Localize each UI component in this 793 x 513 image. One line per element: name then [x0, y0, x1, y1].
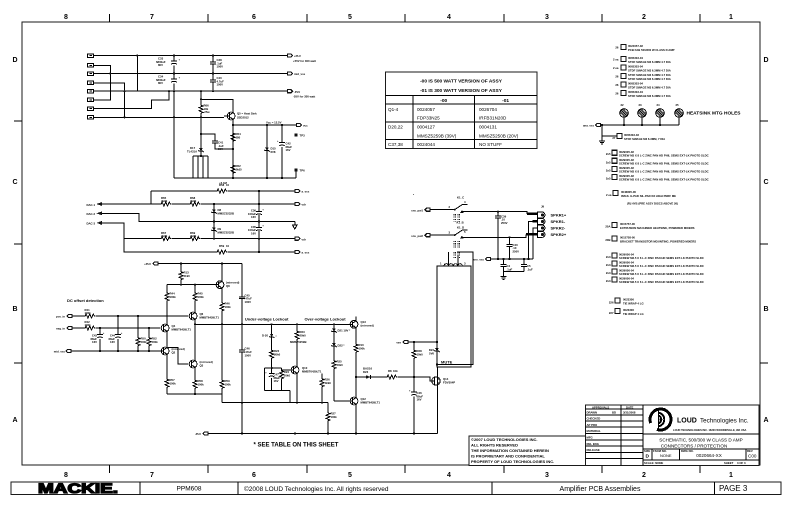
capacitor C39: [497, 211, 499, 213]
approvals table: [621, 405, 643, 466]
wire pin2-pin6 tie: [94, 65, 111, 100]
svg-text:MMSZ5259B: MMSZ5259B: [290, 340, 306, 344]
svg-text:0020664-XX: 0020664-XX: [696, 453, 722, 458]
svg-text:NONE: NONE: [660, 453, 672, 458]
svg-text:SPKR1-: SPKR1-: [551, 219, 566, 224]
svg-text:PROPERTY OF LOUD TECHNOLOGIES: PROPERTY OF LOUD TECHNOLOGIES INC.: [471, 459, 554, 464]
wire cap commons: [504, 272, 525, 277]
transformer winding risers: [449, 252, 458, 266]
resistor R26: [321, 374, 323, 378]
resistor R44: [166, 285, 168, 292]
resistor R45: [194, 285, 196, 292]
svg-text:24: 24: [657, 103, 661, 107]
svg-text:20k0: 20k0: [337, 363, 344, 367]
terminal vss bottom: [295, 250, 300, 253]
svg-text:©2008 LOUD Technologies Inc.: ©2008 LOUD Technologies Inc. All rights …: [244, 485, 389, 493]
svg-text:A: A: [12, 417, 17, 424]
svg-text:16V: 16V: [274, 379, 279, 383]
svg-text:Q8: Q8: [226, 284, 230, 288]
svg-text:0026704: 0026704: [479, 107, 497, 112]
capacitor C43: [99, 328, 101, 335]
title block: [585, 405, 759, 466]
svg-text:8: 8: [64, 14, 68, 21]
svg-text:MMBT6429LT1: MMBT6429LT1: [302, 369, 322, 373]
svg-text:4k99: 4k99: [190, 199, 197, 203]
svg-text:2x5: 2x5: [606, 160, 611, 164]
wire row2: [102, 203, 295, 205]
column ticks bottom: [110, 465, 701, 473]
resistor R62: [231, 164, 235, 174]
svg-text:Amplifier PCB Assemblies: Amplifier PCB Assemblies: [560, 486, 641, 493]
capacitor C40b: [508, 236, 510, 238]
svg-text:DRAWN: DRAWN: [587, 411, 598, 415]
svg-text:DAC-3: DAC-3: [86, 222, 95, 226]
transistor Q8: [216, 281, 224, 289]
TL431 lead bundle: [193, 156, 208, 178]
svg-text:26: 26: [615, 75, 619, 79]
svg-text:226: 226: [609, 301, 614, 305]
svg-text:6: 6: [252, 14, 256, 21]
capacitor C46b: [241, 324, 243, 350]
node pin4/-PLV junction: [123, 90, 125, 92]
svg-text:4: 4: [447, 472, 451, 479]
svg-text:STDF SWAGE M3 6.3MM, 7 DIA: STDF SWAGE M3 6.3MM, 7 DIA: [624, 137, 665, 141]
svg-text:2 ea: 2 ea: [613, 58, 619, 62]
svg-text:SIZE: SIZE: [644, 449, 650, 453]
svg-text:DWG NO.: DWG NO.: [681, 449, 694, 453]
svg-text:100V: 100V: [217, 65, 224, 69]
svg-text:4k99: 4k99: [161, 234, 168, 238]
resistor R27: [327, 403, 329, 412]
terminal vcc: [297, 123, 302, 126]
wire pin1-pin5 tie: [136, 56, 138, 92]
wire gate jog: [414, 377, 435, 381]
svg-text:TP6: TP6: [300, 169, 306, 173]
resistor R22: [270, 349, 274, 359]
svg-text:100k: 100k: [225, 305, 232, 309]
transformer T1 primary bumps: [444, 264, 462, 266]
connector J1 pin 1: [88, 54, 94, 58]
connector SPKR2+: [538, 231, 546, 237]
diode D21: [333, 324, 335, 328]
svg-text:TIE WRAP 4 LG: TIE WRAP 4 LG: [623, 301, 644, 305]
svg-text:SCREW M3 X 8 L-C ZINC PAN HD P: SCREW M3 X 8 L-C ZINC PAN HD PHIL SEMS E…: [619, 162, 709, 166]
svg-text:2x3: 2x3: [606, 279, 611, 283]
svg-text:10k: 10k: [393, 369, 398, 373]
wire collector tap: [201, 99, 233, 112]
resistor R50: [137, 316, 139, 337]
svg-text:7: 7: [150, 14, 154, 21]
svg-text:20A: 20A: [605, 225, 610, 229]
svg-text:250V: 250V: [501, 221, 508, 225]
wire mute riser: [437, 252, 473, 365]
svg-text:16V: 16V: [417, 398, 422, 402]
svg-text:vee: vee: [396, 341, 401, 345]
wire Q8 emitter to R46: [221, 288, 223, 302]
svg-text:DAC-1: DAC-1: [86, 203, 95, 207]
svg-text:100k: 100k: [85, 323, 92, 327]
wire down jog: [221, 394, 223, 403]
resistor R25: [332, 360, 336, 370]
transistor Q14: [432, 377, 440, 385]
capacitor C40: [212, 74, 214, 81]
svg-text:a_vss: a_vss: [302, 251, 310, 255]
svg-text:-55V for 300 watt: -55V for 300 watt: [293, 95, 315, 99]
svg-text:26: 26: [615, 83, 619, 87]
wire to relay K2: [430, 234, 454, 236]
connector SPKR2-: [538, 225, 546, 231]
terminal vdr2: [295, 237, 300, 240]
wire bottom bus: [174, 177, 296, 179]
svg-text:2: 2: [642, 472, 646, 479]
svg-text:20k0: 20k0: [300, 333, 307, 337]
transistor Q12: [350, 397, 358, 405]
svg-text:100k: 100k: [170, 295, 177, 299]
wire Q4 emitter to Q2: [166, 331, 168, 347]
wire row4 jog: [102, 223, 295, 239]
svg-text:DC offset detection: DC offset detection: [67, 298, 104, 303]
svg-text:C37,38: C37,38: [388, 142, 403, 147]
svg-text:1: 1: [729, 14, 733, 21]
svg-text:HEATSINK MTG HOLES: HEATSINK MTG HOLES: [687, 110, 742, 116]
column labels top: [64, 14, 733, 21]
diode D9: [213, 222, 215, 228]
svg-text:STDF SWAGE M3 6.3MM 4.7 DIA: STDF SWAGE M3 6.3MM 4.7 DIA: [628, 60, 671, 64]
svg-text:-PLV: -PLV: [195, 432, 201, 436]
wire vee row: [408, 341, 437, 343]
wire +PLV bus: [94, 55, 288, 57]
svg-text:(mirrored): (mirrored): [361, 324, 374, 328]
wire lockout bus: [195, 323, 353, 325]
svg-text:.1uF: .1uF: [527, 267, 533, 271]
svg-text:200k: 200k: [152, 340, 159, 344]
resistor R57: [166, 354, 168, 378]
svg-text:16V: 16V: [110, 340, 115, 344]
node pin7 join: [168, 90, 170, 92]
svg-text:3/31/2008: 3/31/2008: [623, 411, 636, 415]
node pin1 tie junction: [136, 54, 138, 56]
svg-text:SCREW M3.5 X 6 L-C ZINC PAN HD: SCREW M3.5 X 6 L-C ZINC PAN HD SEMS EXT-…: [619, 256, 704, 260]
mounting hole 23: [638, 109, 647, 118]
svg-text:DAC-2: DAC-2: [86, 212, 95, 216]
connector J1 pin 5: [88, 90, 94, 94]
svg-text:Under-voltage Lockout: Under-voltage Lockout: [245, 317, 289, 322]
resistor R13: [180, 264, 182, 271]
wire TL431 column: [200, 117, 202, 146]
resistor R64: [231, 132, 235, 142]
relay K2 contact: [454, 234, 456, 236]
svg-text:100k: 100k: [225, 382, 232, 386]
svg-text:6V8: 6V8: [271, 150, 276, 154]
svg-text:2x3: 2x3: [606, 255, 611, 259]
svg-text:SCREW M3 X 8 L-C ZINC PAN HD P: SCREW M3 X 8 L-C ZINC PAN HD PHIL SEMS E…: [619, 170, 709, 174]
svg-text:MMSZ5250B (20V): MMSZ5250B (20V): [479, 133, 519, 138]
svg-text:100k: 100k: [198, 295, 205, 299]
svg-text:ana_vss: ana_vss: [583, 124, 594, 128]
wire to relay K1: [430, 209, 454, 211]
svg-text:IRFB31N20D: IRFB31N20D: [479, 116, 507, 121]
wire pin4-pin8 tie: [94, 83, 125, 118]
svg-text:MMSZ5232B: MMSZ5232B: [218, 230, 234, 234]
wire Q3 collector: [194, 324, 196, 360]
svg-text:TL431A: TL431A: [187, 150, 197, 154]
svg-text:BRACKET TRANSISTOR MOUNTING, P: BRACKET TRANSISTOR MOUNTING, POWERED MIX…: [620, 239, 696, 243]
svg-text:THE INFORMATION CONTAINED HERE: THE INFORMATION CONTAINED HEREIN: [471, 448, 549, 453]
capacitor C36: [258, 204, 260, 211]
wire ano_vss row: [491, 258, 534, 260]
svg-text:5V6: 5V6: [429, 351, 434, 355]
svg-text:-01 IS 300 WATT VERSION OF ASS: -01 IS 300 WATT VERSION OF ASSY: [420, 88, 503, 94]
resistor R8: [386, 375, 397, 379]
terminal vss top: [295, 189, 300, 192]
svg-text:Technologies Inc.: Technologies Inc.: [700, 417, 749, 424]
wire lower bus jogs: [222, 402, 328, 404]
svg-text:0004127: 0004127: [417, 125, 435, 130]
svg-text:0004131: 0004131: [479, 125, 497, 130]
svg-text:Vcc = 12.5V: Vcc = 12.5V: [266, 121, 282, 125]
svg-text:20B: 20B: [605, 238, 610, 242]
svg-text:mid_vss: mid_vss: [54, 350, 66, 354]
wire mid rail down: [173, 91, 175, 178]
svg-text:RELEASE: RELEASE: [587, 448, 600, 452]
svg-text:100V: 100V: [245, 300, 252, 304]
svg-text:D21 19V *: D21 19V *: [338, 329, 352, 333]
resistor R46: [220, 302, 224, 312]
svg-text:MMBT6429LT1: MMBT6429LT1: [172, 327, 192, 331]
svg-text:* SEE TABLE ON THIS SHEET: * SEE TABLE ON THIS SHEET: [254, 443, 339, 449]
svg-text:SCREW M3 X 8 L-C ZINC PAN HD P: SCREW M3 X 8 L-C ZINC PAN HD PHIL SEMS E…: [619, 178, 709, 182]
svg-text:STDF SWAGE M3 6.3MM 4.7 DIA: STDF SWAGE M3 6.3MM 4.7 DIA: [628, 85, 671, 89]
svg-text:-00: -00: [440, 98, 447, 104]
connector J1 pin 2: [88, 64, 94, 68]
svg-text:Over-voltage Lockout: Over-voltage Lockout: [304, 317, 346, 322]
svg-text:2x5: 2x5: [606, 152, 611, 156]
svg-text:TIE WRAP 4 LG: TIE WRAP 4 LG: [623, 312, 644, 316]
svg-text:K1_C: K1_C: [457, 196, 464, 200]
terminal -PLV: [288, 90, 293, 93]
node emitter divider: [232, 148, 234, 150]
row labels right: [763, 57, 768, 424]
svg-text:SCREW M3 X 8 L-C ZINC PAN HD P: SCREW M3 X 8 L-C ZINC PAN HD PHIL SEMS E…: [619, 153, 709, 157]
wire C47 loop: [265, 368, 290, 403]
svg-text:LOUD: LOUD: [677, 418, 697, 425]
svg-text:3 OF 3: 3 OF 3: [737, 461, 746, 465]
svg-text:DATE: DATE: [626, 405, 634, 409]
svg-text:4k99: 4k99: [161, 199, 168, 203]
svg-text:.1uF: .1uF: [507, 267, 513, 271]
svg-text:2x5: 2x5: [606, 168, 611, 172]
svg-text:D: D: [646, 454, 650, 460]
resistor R68: [189, 202, 200, 206]
svg-text:100k: 100k: [170, 381, 177, 385]
transformer coupling coil: [454, 252, 460, 258]
svg-text:8: 8: [64, 472, 68, 479]
svg-text:ano_vss: ano_vss: [473, 258, 485, 262]
svg-text:IS PROPRIETARY AND CONFIDENTIA: IS PROPRIETARY AND CONFIDENTIAL: [471, 454, 545, 459]
svg-text:STDF SWAGE M3 6.3MM 4.7 DIA: STDF SWAGE M3 6.3MM 4.7 DIA: [628, 68, 671, 72]
svg-text:10: 10: [226, 244, 230, 248]
svg-text:7: 7: [150, 472, 154, 479]
svg-text:2k05: 2k05: [236, 167, 243, 171]
wire Q10 emitter: [296, 373, 298, 402]
svg-text:80V: 80V: [158, 81, 163, 85]
resistor R58: [216, 189, 227, 193]
svg-text:a_vss: a_vss: [302, 190, 310, 194]
svg-text:R8: R8: [388, 369, 392, 373]
svg-text:Q3: Q3: [200, 363, 204, 367]
svg-text:2x3: 2x3: [606, 263, 611, 267]
capacitor C33: [173, 56, 175, 61]
svg-text:(R) HYB (PRE ASSY DISCS ABOV: (R) HYB (PRE ASSY DISCS ABOVE 26): [627, 202, 678, 206]
capacitor C41: [212, 141, 218, 143]
transistor Q13: [350, 320, 358, 328]
node base junction: [200, 116, 202, 118]
svg-text:MUTE: MUTE: [441, 360, 453, 365]
svg-text:B: B: [763, 306, 768, 313]
svg-text:STDF SWAGE M3 6.3MM 4.7 DIA: STDF SWAGE M3 6.3MM 4.7 DIA: [628, 94, 671, 98]
capacitor C42: [281, 125, 283, 143]
resistor R10: [355, 328, 357, 343]
connector J1 pin 8: [88, 116, 94, 120]
transistor Q5: [227, 112, 235, 120]
capacitor C35: [258, 222, 260, 228]
ground: [501, 277, 507, 280]
svg-text:sns_pw2: sns_pw2: [411, 234, 423, 238]
resistor R59: [216, 250, 227, 254]
svg-text:100k: 100k: [85, 311, 92, 315]
svg-text:A: A: [763, 417, 768, 424]
net MUTE: [436, 363, 438, 365]
connector J1 pin 6: [88, 98, 94, 102]
svg-text:0024057: 0024057: [417, 107, 435, 112]
svg-text:MMSZ5232B: MMSZ5232B: [218, 211, 234, 215]
svg-text:SCREW M3.5 X 6 L-C ZINC PAN HD: SCREW M3.5 X 6 L-C ZINC PAN HD SEMS EXT-…: [619, 264, 704, 268]
transistor Q2: [161, 347, 169, 355]
relay K1 output contact: [460, 210, 464, 213]
svg-text:23: 23: [639, 103, 643, 107]
row ticks left: [14, 121, 22, 363]
svg-text:10k0: 10k0: [417, 352, 424, 356]
svg-text:2x3: 2x3: [606, 271, 611, 275]
wire SPKR1- return: [533, 220, 538, 222]
transformer T1 body: [437, 266, 471, 367]
resistor R23: [296, 324, 298, 330]
svg-text:2SD2012: 2SD2012: [237, 115, 249, 119]
resistor R59b: [221, 324, 223, 379]
resistor R65: [160, 202, 171, 206]
svg-text:MMBT6429LT1: MMBT6429LT1: [361, 400, 381, 404]
svg-text:R58: R58: [219, 183, 225, 187]
svg-text:MATERIAL: MATERIAL: [587, 429, 602, 433]
copyright box: [469, 436, 585, 466]
svg-text:2x5: 2x5: [606, 177, 611, 181]
diode D23: [366, 375, 371, 379]
svg-text:MMSZ5259B (39V): MMSZ5259B (39V): [417, 133, 457, 138]
wire C41 tap: [201, 134, 215, 141]
parts version table: [386, 72, 537, 148]
svg-text:100k: 100k: [331, 415, 338, 419]
svg-text:D-20: D-20: [262, 333, 269, 337]
svg-text:MACKIE.: MACKIE.: [38, 481, 118, 496]
wire -PLV bus: [94, 90, 288, 92]
svg-text:STDF SWAGE M3 6.3MM 4.7 DIA: STDF SWAGE M3 6.3MM 4.7 DIA: [628, 77, 671, 81]
svg-text:2: 2: [642, 14, 646, 21]
svg-text:100V: 100V: [217, 83, 224, 87]
wire neg row: [72, 327, 161, 329]
svg-text:16V: 16V: [286, 148, 291, 152]
svg-text:16V: 16V: [251, 215, 256, 219]
svg-text:+55V for 300 watt: +55V for 300 watt: [293, 59, 316, 63]
svg-text:100V: 100V: [245, 353, 252, 357]
resistor R28: [413, 342, 415, 349]
svg-text:SCALE: NONE: SCALE: NONE: [644, 461, 663, 465]
diode D22: [331, 343, 336, 347]
svg-text:16V: 16V: [92, 340, 97, 344]
column labels bottom: [64, 472, 733, 479]
svg-text:pos_in: pos_in: [56, 315, 65, 319]
svg-text:AP PRO: AP PRO: [587, 423, 598, 427]
svg-text:6: 6: [252, 472, 256, 479]
svg-text:LOUD TECHNOLOGIES INC. 16220 W: LOUD TECHNOLOGIES INC. 16220 WOODINVILLE…: [673, 428, 747, 432]
wire vcc bus: [233, 124, 297, 126]
svg-text:PPM608: PPM608: [177, 486, 202, 493]
resistor R66: [200, 91, 202, 104]
wire top vss row: [151, 190, 295, 192]
resistor R24: [281, 368, 283, 370]
capacitor C4: [502, 258, 504, 260]
mounting hole 24: [656, 109, 665, 118]
svg-text:22: 22: [621, 103, 625, 107]
svg-text:-00 IS 500 WATT VERSION OF ASS: -00 IS 500 WATT VERSION OF ASSY: [420, 79, 503, 85]
wire SPKR2- return: [533, 228, 538, 259]
wire standoff ground: [602, 125, 617, 141]
row ticks right: [760, 121, 768, 363]
svg-text:.25w: .25w: [204, 110, 211, 114]
resistor R67: [160, 237, 171, 241]
wire row3 jog: [102, 213, 295, 221]
connector SPKR1+: [538, 212, 546, 218]
svg-text:MFG: MFG: [587, 436, 593, 440]
svg-text:PAGE 3: PAGE 3: [719, 484, 748, 493]
svg-text:50V: 50V: [218, 147, 223, 151]
svg-text:BAS16: BAS16: [363, 367, 372, 371]
wire mid_vss bus: [94, 73, 288, 75]
ground: [599, 141, 605, 144]
svg-text:4: 4: [447, 14, 451, 21]
svg-text:©2007 LOUD TECHNOLOGIES INC.: ©2007 LOUD TECHNOLOGIES INC.: [471, 437, 538, 442]
svg-text:EXTRUSION MACHINED HEATSINK, P: EXTRUSION MACHINED HEATSINK, POWERED MIX…: [620, 226, 695, 230]
svg-text:5: 5: [348, 472, 352, 479]
wire mtg hole net: [601, 124, 680, 126]
svg-text:SCREW M3.5 X 6 L-C ZINC PAN HD: SCREW M3.5 X 6 L-C ZINC PAN HD SEMS EXT-…: [619, 272, 704, 276]
relay K2 coil: [454, 241, 460, 248]
terminal mid_vss: [288, 72, 293, 75]
svg-text:FDP33N25: FDP33N25: [417, 116, 440, 121]
svg-text:SPKR1+: SPKR1+: [551, 213, 567, 218]
diode D17 TL431: [200, 146, 202, 148]
diode D15: [266, 125, 268, 148]
svg-text:100k: 100k: [359, 346, 366, 350]
svg-text:+PLV: +PLV: [294, 54, 301, 58]
wire K2 output: [462, 234, 526, 238]
resistor R42: [84, 326, 95, 330]
svg-text:D20,22: D20,22: [388, 125, 403, 130]
wire row5: [124, 239, 295, 252]
svg-text:SCREW M3.5 X 6 L-C ZINC PAN HD: SCREW M3.5 X 6 L-C ZINC PAN HD SEMS EXT-…: [619, 280, 704, 284]
svg-text:CHECKED: CHECKED: [587, 417, 601, 421]
transistor Q6: [189, 312, 197, 320]
svg-text:Q2: Q2: [172, 350, 176, 354]
